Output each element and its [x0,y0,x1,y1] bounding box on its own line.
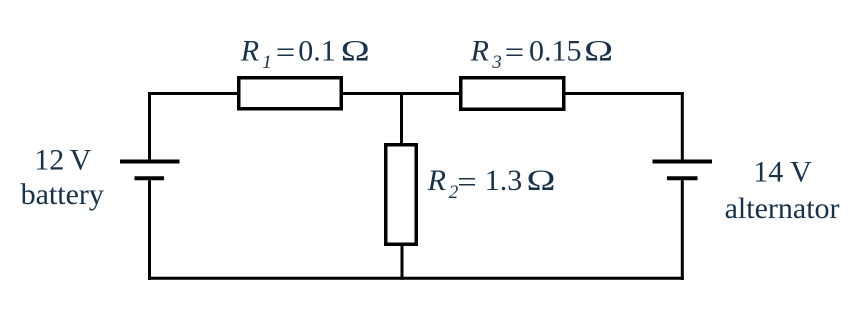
wire left vertical lower [148,180,151,280]
svg-text:=: = [505,35,524,68]
svg-text:R: R [470,34,489,67]
svg-text:Ω: Ω [341,34,370,68]
wire left vertical upper [148,92,151,161]
svg-text:1.3: 1.3 [485,164,523,197]
wire right vertical upper [681,92,684,161]
svg-text:=: = [457,165,476,198]
svg-text:3: 3 [491,52,502,73]
resistor R2 [386,145,417,245]
svg-text:0.1: 0.1 [298,34,336,67]
battery B1 long plate [120,160,180,164]
label R1 value [240,34,370,74]
label R3 value [470,34,613,74]
svg-text:Ω: Ω [527,163,556,197]
svg-text:14 V: 14 V [753,155,812,188]
wire top-middle horizontal [341,92,461,95]
wire middle vertical lower [401,243,404,280]
resistor R3 [461,78,564,110]
svg-text:R: R [427,164,446,197]
battery B1 short plate [135,176,165,180]
svg-text:12 V: 12 V [34,144,91,177]
svg-text:1: 1 [262,52,272,73]
resistor R1 [239,78,342,109]
label R2 value [427,163,556,203]
svg-text:alternator: alternator [725,192,840,225]
svg-text:0.15: 0.15 [529,34,582,67]
svg-text:R: R [240,34,259,67]
svg-text:Ω: Ω [584,34,613,68]
svg-text:=: = [276,35,295,68]
wire top-right horizontal [563,92,684,95]
wire top-left horizontal [148,92,239,95]
battery B2 long plate [653,160,713,164]
wire bottom rail [148,277,684,280]
svg-text:battery: battery [21,178,104,211]
wire right vertical lower [681,180,684,280]
battery B2 short plate [667,176,698,180]
node junction middle vertical [400,92,403,145]
